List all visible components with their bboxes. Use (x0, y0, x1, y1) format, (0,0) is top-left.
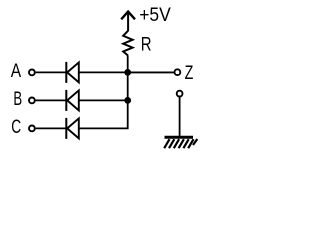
wire diode D3 to bus corner (79, 72, 128, 129)
wire ground terminal to ground (179, 97, 181, 137)
resistor R (123, 31, 132, 73)
ground terminal (177, 91, 183, 97)
wire diode D1 to node Z (79, 71, 174, 73)
diode D3 (input C) (66, 118, 79, 139)
svg-text:+5V: +5V (139, 5, 171, 26)
terminal A (29, 70, 35, 76)
+5V label (139, 5, 171, 26)
svg-text:R: R (141, 34, 152, 55)
ground (164, 137, 197, 148)
svg-text:Z: Z (185, 63, 194, 84)
junction at diode D2 output (124, 97, 131, 104)
svg-text:C: C (11, 117, 21, 138)
junction at node Z (resistor/bus/output) (124, 69, 131, 76)
+5V arrow (121, 12, 135, 32)
node C label (11, 117, 21, 138)
terminal B (29, 98, 35, 104)
svg-text:A: A (11, 61, 22, 82)
diode D2 (input B) (66, 90, 79, 111)
node Z label (185, 63, 194, 84)
terminal Z (175, 69, 181, 75)
diode D1 (input A) (66, 62, 79, 83)
wire C terminal to diode (36, 127, 67, 129)
wire A terminal to diode (36, 71, 67, 73)
resistor R label (141, 34, 152, 55)
node B label (13, 89, 22, 110)
wire B terminal to diode (36, 99, 67, 101)
wire junction to terminal Z (128, 71, 174, 73)
terminal C (29, 125, 35, 131)
wire diode D2 to bus (79, 99, 128, 101)
node A label (11, 61, 22, 82)
svg-text:B: B (13, 89, 22, 110)
